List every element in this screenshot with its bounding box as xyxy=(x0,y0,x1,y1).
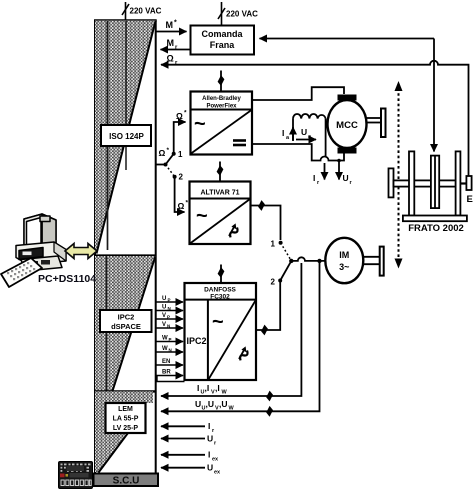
svg-text:220 VAC: 220 VAC xyxy=(226,10,258,19)
label box LEM LA 55-P LV 25-P xyxy=(106,403,146,433)
svg-text:,U: ,U xyxy=(219,399,228,409)
variable frequency squiggle icon xyxy=(238,346,249,360)
S.C.U unit bar xyxy=(94,474,159,487)
wire torque sensor to Comanda Frana xyxy=(260,38,435,40)
svg-text:2: 2 xyxy=(271,278,276,287)
gate signal wires column to IPC2 (8x) xyxy=(157,302,184,376)
coupling disc left xyxy=(389,168,394,197)
svg-text:IM: IM xyxy=(339,250,349,260)
svg-text:Allen-Bradley: Allen-Bradley xyxy=(202,96,241,102)
wire Mr feedback Comanda to column xyxy=(161,49,191,51)
field winding coil of MCC xyxy=(293,114,326,157)
svg-text:V: V xyxy=(162,313,166,319)
svg-text:W: W xyxy=(222,390,228,396)
power plug stub + diamond for PowerFlex xyxy=(218,71,225,92)
wire PowerFlex DC output top to MCC xyxy=(252,87,344,100)
arrow I_r into LEM xyxy=(161,425,205,427)
svg-text:,I: ,I xyxy=(215,383,220,393)
shaft IM xyxy=(363,247,383,276)
arrow U_ex into LEM xyxy=(161,467,205,469)
encoder E box xyxy=(466,176,471,190)
label box IPC2 dSPACE xyxy=(100,310,152,332)
step wire column to DANFOSS bottom corner xyxy=(157,376,185,382)
svg-text:U: U xyxy=(207,463,213,473)
svg-text:P: P xyxy=(167,315,170,320)
svg-text:LV 25-P: LV 25-P xyxy=(113,425,138,432)
wire M* reference column to Comanda Frana xyxy=(157,31,187,33)
svg-text:I: I xyxy=(208,450,210,460)
drive Allen-Bradley PowerFlex xyxy=(191,92,253,155)
desktop case under monitor xyxy=(16,242,66,265)
diamond on ALTIVAR output xyxy=(258,200,265,211)
svg-text:Comanda: Comanda xyxy=(201,29,243,39)
IPC2 dSPACE section (hatched trapezoid) xyxy=(95,256,156,391)
svg-text:BR: BR xyxy=(162,370,171,376)
labels gate signals xyxy=(162,296,172,376)
svg-text:Frana: Frana xyxy=(210,40,236,50)
wire PowerFlex DC output bottom to MCC (with hop) xyxy=(252,144,344,161)
svg-text:U: U xyxy=(343,173,349,183)
yellow link double arrow PC to column xyxy=(65,244,97,259)
wire down to torque sensor with arrow xyxy=(433,39,435,152)
selector switch Omega* (column side) xyxy=(157,152,177,179)
power plug stub + diamond for ALTIVAR xyxy=(217,162,224,182)
wire switch pole to IM motor (hop + junction) xyxy=(291,257,326,261)
block Comanda Frana xyxy=(191,26,255,55)
svg-text:V: V xyxy=(162,322,166,328)
LEM transducer section (hatched panel) xyxy=(95,391,156,472)
shaft MCC xyxy=(367,109,386,138)
power plug stub + diamond for DANFOSS xyxy=(218,265,225,284)
label box ISO 124P xyxy=(101,125,151,146)
arrow I field current (up) xyxy=(292,127,294,140)
svg-text:~: ~ xyxy=(196,205,208,227)
svg-text:Ω: Ω xyxy=(176,111,183,121)
label I_U,I_V,I_W xyxy=(197,383,228,396)
wire Omega* to PowerFlex from selector contact 1 xyxy=(174,122,186,154)
pedestal xyxy=(21,256,62,271)
arrow I_ex into LEM xyxy=(161,454,205,456)
arrow U_r into LEM xyxy=(161,438,205,440)
wire DANFOSS output to selector contact 2 xyxy=(256,281,280,331)
svg-text:~: ~ xyxy=(212,311,224,333)
circuit board photo (DS1104 board) xyxy=(59,462,93,489)
svg-text:IPC2: IPC2 xyxy=(186,336,206,346)
svg-text:LEM: LEM xyxy=(118,406,133,413)
base plate xyxy=(403,216,467,222)
svg-text:P: P xyxy=(168,298,171,303)
svg-text:*: * xyxy=(174,20,177,27)
svg-text:ex: ex xyxy=(214,470,221,476)
wire ALTIVAR output to selector contact 1 xyxy=(251,206,281,241)
motor MCC (DC machine) xyxy=(328,95,367,154)
svg-text:Ω: Ω xyxy=(167,54,174,64)
svg-text:U: U xyxy=(195,399,201,409)
svg-text:W: W xyxy=(229,406,235,412)
svg-text:U: U xyxy=(207,434,213,444)
svg-text:,U: ,U xyxy=(206,399,215,409)
220 VAC slash symbol middle xyxy=(218,8,225,19)
diamond on voltage measurement line xyxy=(266,406,273,417)
svg-text:Ω: Ω xyxy=(178,201,185,211)
svg-text:IPC2: IPC2 xyxy=(118,313,135,322)
svg-text:U: U xyxy=(301,127,307,137)
svg-text:Ω: Ω xyxy=(159,148,166,158)
svg-text:EN: EN xyxy=(162,359,170,365)
svg-text:FC302: FC302 xyxy=(210,294,230,301)
shaft through rig xyxy=(394,180,456,186)
svg-text:M: M xyxy=(167,38,175,48)
svg-text:dSPACE: dSPACE xyxy=(111,322,141,331)
measurement arrow U rotor (down) xyxy=(337,159,341,163)
svg-text:1: 1 xyxy=(271,240,276,249)
wire I_U I_V I_W measurement line to column xyxy=(161,263,301,396)
svg-text:MCC: MCC xyxy=(336,120,358,131)
svg-text:1: 1 xyxy=(178,150,183,159)
diamond on DANFOSS output xyxy=(261,325,268,336)
svg-text:S.C.U: S.C.U xyxy=(113,476,140,487)
arrow U field voltage (right) xyxy=(296,139,316,141)
svg-text:I: I xyxy=(313,173,315,183)
svg-text:I: I xyxy=(208,421,210,431)
svg-text:N: N xyxy=(169,348,172,353)
svg-text:W: W xyxy=(162,336,168,342)
wire 220 VAC feed to I/O column xyxy=(125,2,127,21)
svg-text:W: W xyxy=(162,346,168,352)
shaft stub to encoder xyxy=(460,182,466,184)
wire Omega_r speed feedback from encoder to column (with hop) xyxy=(161,61,469,176)
svg-text:I: I xyxy=(197,383,199,393)
label U_U,U_V,U_W xyxy=(195,399,235,412)
FRATO 2002 brake test rig xyxy=(389,151,472,221)
svg-text:U: U xyxy=(162,296,166,302)
svg-text:LA 55-P: LA 55-P xyxy=(113,416,139,423)
svg-text:ALTIVAR 71: ALTIVAR 71 xyxy=(200,190,239,197)
svg-text:P: P xyxy=(169,337,172,342)
measurement arrow I rotor (down from MCC loop) xyxy=(324,163,326,180)
svg-text:~: ~ xyxy=(194,113,206,135)
svg-text:ISO 124P: ISO 124P xyxy=(109,132,144,141)
diamond on current measurement line xyxy=(266,391,273,402)
I/O interface column container xyxy=(94,21,157,474)
svg-text:,I: ,I xyxy=(205,383,210,393)
svg-text:PowerFlex: PowerFlex xyxy=(206,104,237,110)
torque sensor bar (middle) xyxy=(431,156,439,209)
svg-text:2: 2 xyxy=(179,173,184,182)
svg-text:I: I xyxy=(282,128,284,138)
right support column xyxy=(456,151,461,215)
svg-text:N: N xyxy=(167,324,170,329)
svg-text:DANFOSS: DANFOSS xyxy=(204,287,236,294)
wire 220 VAC feed to Comanda Frana xyxy=(221,2,223,26)
variable frequency squiggle icon xyxy=(228,223,239,237)
wire U_U U_V U_W measurement line to column xyxy=(161,263,320,411)
220 VAC slash symbol left xyxy=(122,4,129,15)
left support column xyxy=(409,151,414,215)
motor IM 3~ (induction machine) xyxy=(325,238,363,283)
svg-text:3~: 3~ xyxy=(339,262,349,272)
keyboard xyxy=(1,258,42,287)
monitor xyxy=(24,214,56,255)
wire Omega* to ALTIVAR from selector contact 2 xyxy=(175,177,185,212)
svg-text:PC+DS1104: PC+DS1104 xyxy=(38,273,96,285)
selector switch near IM motor xyxy=(278,241,293,283)
ISO 124P isolation section (hatched trapezoid) xyxy=(95,21,156,254)
svg-text:U: U xyxy=(162,305,166,311)
svg-text:FRATO 2002: FRATO 2002 xyxy=(408,223,464,234)
dashed alignment axis double arrow xyxy=(395,81,403,269)
svg-text:M: M xyxy=(166,20,174,30)
svg-text:220 VAC: 220 VAC xyxy=(130,7,162,16)
PC workstation clipart xyxy=(16,214,66,271)
svg-text:N: N xyxy=(168,306,171,311)
junction dot at voltage tap xyxy=(317,259,321,263)
svg-text:E: E xyxy=(467,194,473,205)
drive ALTIVAR 71 xyxy=(190,182,251,245)
drive DANFOSS FC302 with IPC2 card xyxy=(185,283,257,380)
